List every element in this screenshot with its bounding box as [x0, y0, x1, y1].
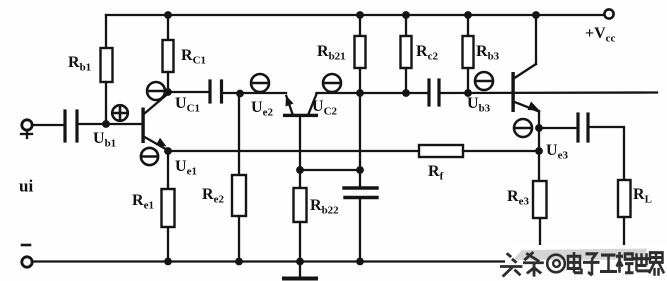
wire Rb21 to UC2 line — [359, 68, 361, 93]
wire from rail down to Rb1 — [105, 15, 107, 48]
power terminal +Vcc — [604, 9, 613, 18]
svg-text:Rb3: Rb3 — [476, 43, 500, 63]
svg-text:Rb1: Rb1 — [68, 54, 91, 74]
node top rail Q3 collector — [532, 11, 540, 19]
capacitor C1 — [63, 111, 66, 141]
resistor Rc2 — [401, 36, 412, 68]
node top rail RC1 — [164, 11, 172, 19]
svg-text:Ue3: Ue3 — [546, 142, 568, 162]
ground terminal minus — [22, 257, 32, 267]
watermark text — [500, 252, 664, 277]
wire Rb3 to Ub3 node — [467, 68, 469, 93]
capacitor bypass Ce — [344, 186, 377, 189]
svg-text:Ub1: Ub1 — [93, 130, 116, 150]
node Rb21 top — [356, 11, 364, 19]
resistor Re2 — [232, 175, 246, 216]
svg-text:Ue2: Ue2 — [251, 99, 273, 119]
wire RL to ground — [623, 217, 625, 250]
wire UC1 to C2 — [168, 91, 208, 93]
node bias right — [356, 166, 364, 174]
transistor Q3 — [511, 64, 539, 112]
label Ue1 — [175, 158, 197, 178]
svg-text:Ub3: Ub3 — [467, 95, 491, 115]
svg-text:+Vcc: +Vcc — [585, 25, 616, 45]
label +Vcc — [585, 25, 616, 45]
node emitter output junction — [535, 124, 543, 132]
resistor RC1 — [163, 40, 174, 72]
wire rail to Rc2 — [405, 15, 407, 36]
wire top supply rail — [106, 14, 604, 16]
wire C4 to RL — [588, 127, 624, 180]
svg-text:Rc2: Rc2 — [416, 43, 438, 63]
node bias left — [296, 166, 304, 174]
symbol minus UC2 — [323, 74, 341, 92]
resistor RL — [618, 180, 631, 217]
node Ue2 junction — [236, 90, 244, 98]
wire down to bias junction — [359, 93, 361, 170]
label Ue3 — [546, 142, 568, 162]
label UC2 — [312, 98, 338, 118]
capacitor C3 — [427, 80, 430, 105]
watermark background — [505, 245, 667, 281]
wire junction to Rb22 — [299, 170, 301, 188]
wire C2 to Q2 emitter — [222, 92, 287, 94]
node capacitor bottom — [356, 258, 364, 266]
svg-text:Ue1: Ue1 — [175, 158, 197, 178]
wire rail to RC1 — [167, 15, 169, 40]
svg-text:Rb21: Rb21 — [317, 43, 346, 63]
svg-text:RC1: RC1 — [181, 47, 206, 67]
wire UC2 collector line to C3 — [317, 92, 428, 94]
wire rail to Rb21 — [359, 15, 361, 36]
node Rb21 bottom — [356, 89, 364, 97]
node Ue1 — [164, 147, 172, 155]
node UC1 — [164, 88, 172, 96]
svg-text:UC2: UC2 — [312, 98, 338, 118]
node Rc2 bottom — [402, 89, 410, 97]
capacitor C2 — [208, 81, 211, 102]
svg-text:Rb22: Rb22 — [310, 197, 339, 217]
wire capacitor to ground rail — [359, 199, 361, 262]
wire Rc2 down to line — [405, 68, 407, 93]
transistor Q1 — [141, 94, 167, 150]
wire Re1 to ground rail — [167, 227, 169, 262]
node top rail Rc2 — [402, 11, 410, 19]
resistor Rb22 — [294, 188, 307, 222]
label UC1 — [175, 95, 200, 115]
wire Ue2 node down to Re2 — [238, 93, 240, 175]
symbol minus Ue3 — [514, 119, 532, 137]
label Ub3 — [467, 95, 491, 115]
resistor Re3 — [533, 181, 547, 218]
capacitor C4 — [576, 114, 579, 141]
symbol minus UC1 — [147, 82, 165, 100]
symbol minus Ue2 — [251, 74, 269, 92]
resistor Rb3 — [463, 36, 474, 68]
wire output to C4 — [539, 127, 576, 129]
wire Rb1 to base node — [105, 82, 107, 124]
wire Rf to Ue3 — [463, 150, 539, 152]
wire Q2 base down — [299, 117, 301, 170]
label Ub1 — [93, 130, 116, 150]
wire Ue1 feedback line to Rf — [168, 150, 419, 152]
svg-text:Re3: Re3 — [507, 188, 529, 208]
wire rail to Rb3 — [467, 15, 469, 36]
wire Re3 to ground — [539, 218, 541, 250]
wire Ue1 down to Re1 — [167, 151, 169, 189]
svg-text:RL: RL — [633, 186, 652, 206]
svg-text:ui: ui — [19, 177, 33, 196]
node Re2 bottom — [235, 258, 243, 266]
wire C1 to Q1 base — [77, 123, 142, 125]
wire junction to bypass capacitor — [359, 170, 361, 187]
node Rb22 bottom — [296, 258, 304, 266]
wire rail to Q3 collector — [535, 15, 537, 64]
svg-text:Re1: Re1 — [132, 192, 154, 212]
wire bias junction segment — [300, 169, 360, 171]
svg-text:Re2: Re2 — [202, 186, 224, 206]
label ui — [19, 177, 33, 196]
resistor Rf — [419, 145, 463, 157]
node Ue3 — [535, 147, 543, 155]
node Re1 bottom — [164, 258, 172, 266]
symbol minus Ub3 — [475, 72, 493, 90]
wire Q3 emitter down — [538, 111, 540, 181]
ground — [284, 262, 316, 279]
wire input to C1 — [32, 124, 63, 126]
resistor Re1 — [162, 189, 175, 227]
input terminal — [22, 120, 32, 130]
symbol minus Ue1 — [141, 148, 158, 165]
wire bottom ground rail — [32, 260, 512, 262]
svg-text:UC1: UC1 — [175, 95, 200, 115]
transistor Q2 — [283, 94, 318, 117]
wire Rb22 to ground rail — [299, 222, 301, 262]
resistor Rb21 — [355, 36, 366, 68]
wire RC1 to collector node — [167, 72, 169, 92]
node top rail Rb3 — [464, 11, 472, 19]
label Ue2 — [251, 99, 273, 119]
node Ub3 — [464, 89, 472, 97]
wire C3 to Q3 base — [439, 91, 657, 94]
resistor Rb1 — [101, 48, 113, 82]
svg-text:Rf: Rf — [428, 163, 444, 183]
node Ub1 — [102, 120, 110, 128]
wire Re2 to ground rail — [238, 216, 240, 262]
symbol plus Ub1 — [112, 105, 128, 121]
